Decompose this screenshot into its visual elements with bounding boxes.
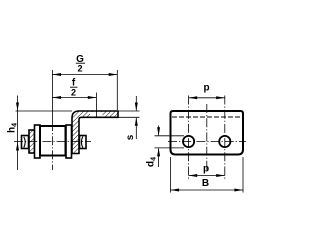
roller bbox=[40, 126, 66, 156]
dimension h4 bbox=[7, 96, 73, 171]
dimension d4 bbox=[146, 126, 185, 168]
svg-text:B: B bbox=[202, 178, 209, 189]
chain horizontal centerline bbox=[14, 141, 91, 143]
dimension G/2 bbox=[52, 54, 117, 110]
left outer plate (hatched section) bbox=[29, 130, 35, 153]
plate horizontal centerline bbox=[168, 141, 246, 143]
svg-text:p: p bbox=[203, 83, 209, 94]
plate outline bbox=[171, 111, 244, 155]
dimension B bbox=[171, 157, 244, 193]
dimension p (top) bbox=[189, 83, 225, 100]
dimension f/2 bbox=[52, 78, 96, 118]
svg-text:2: 2 bbox=[71, 88, 76, 98]
right pin cap bbox=[80, 136, 87, 149]
plate central vertical centerline bbox=[206, 104, 208, 170]
right inner plate edge bbox=[66, 125, 72, 158]
svg-text:2: 2 bbox=[77, 64, 82, 74]
right hole centerline bbox=[224, 96, 226, 180]
K-attachment bent plate (sectioned) bbox=[72, 111, 118, 154]
svg-text:s: s bbox=[125, 134, 136, 140]
svg-text:p: p bbox=[203, 164, 209, 175]
dimension p (bottom) bbox=[189, 164, 225, 178]
bend line (dashed) bbox=[172, 116, 242, 118]
chain vertical centerline / G-f extension bbox=[51, 70, 53, 122]
left pin cap bbox=[22, 136, 29, 149]
left hole centerline bbox=[188, 96, 190, 180]
dimension s bbox=[119, 96, 140, 140]
left hole bbox=[183, 136, 194, 147]
left inner plate edge bbox=[35, 125, 41, 158]
hatch gap in top bar bbox=[90, 112, 103, 117]
right hole bbox=[219, 136, 230, 147]
